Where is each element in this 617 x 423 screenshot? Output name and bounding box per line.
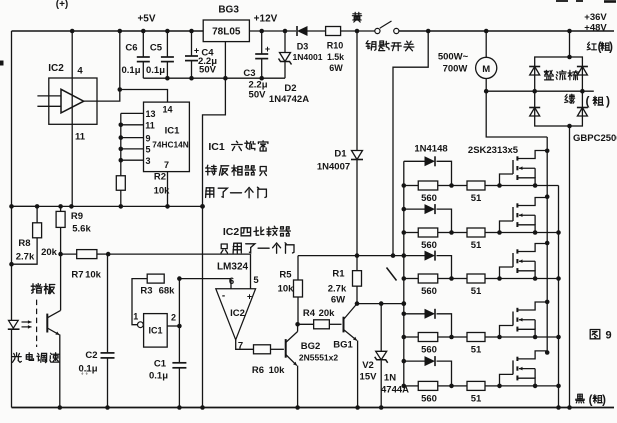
svg-text:R8: R8 (18, 238, 30, 249)
svg-text:10k: 10k (278, 284, 295, 295)
wire +36V/+48V rail after switch (399, 29, 614, 34)
diode 1N4148 row 4 (404, 309, 452, 337)
wire switch output branch (393, 31, 428, 256)
key switch (375, 21, 399, 34)
svg-text:500W~: 500W~ (438, 52, 469, 63)
svg-text:20k: 20k (319, 308, 336, 319)
label 2SK2313x5 (468, 145, 519, 156)
svg-text:68k: 68k (159, 286, 176, 297)
wire source row 1 to source bus (500, 185, 559, 187)
svg-text:IC2: IC2 (48, 63, 64, 74)
resistor R9 5.6k (56, 206, 91, 254)
svg-text:2N5551x2: 2N5551x2 (299, 353, 339, 363)
svg-text:0.1μ: 0.1μ (146, 65, 165, 76)
svg-text:+48V: +48V (584, 23, 607, 34)
svg-text:560: 560 (421, 345, 437, 356)
resistor R2 10k (116, 172, 170, 207)
light arrows (22, 320, 32, 329)
svg-text:+: + (265, 44, 270, 54)
label LM324 (217, 262, 249, 273)
diode 1N4148 row 2 (404, 204, 452, 232)
decor left edge mark (0, 61, 4, 66)
svg-text:): ) (609, 42, 613, 54)
svg-text:2SK2313x5: 2SK2313x5 (468, 145, 519, 156)
svg-text:BG3: BG3 (218, 5, 239, 16)
svg-text:C1: C1 (154, 359, 167, 370)
resistor R6 10k (252, 345, 285, 376)
wire pin6 from R3 node (179, 279, 231, 289)
wire +12V rail (78L05 output to D3) (249, 29, 296, 34)
node R5/R4/BG2 collector (295, 322, 300, 327)
svg-text:R3: R3 (140, 286, 152, 297)
label rectifier bridge (zhengliuqiao) (544, 70, 578, 80)
svg-text:51: 51 (471, 240, 482, 251)
schmitt gate IC1 box (133, 312, 176, 348)
MOSFET Q4 2SK2313 (500, 300, 550, 340)
diode 1N4148 row 1 (404, 156, 452, 185)
svg-text:5: 5 (145, 145, 150, 155)
capacitor C1 0.1u (149, 359, 186, 408)
motor M 500W~700W (438, 31, 497, 79)
wire comparator output (236, 340, 254, 350)
svg-text:14: 14 (162, 105, 172, 115)
svg-text:R4: R4 (303, 308, 316, 319)
bridge diode lower-left (529, 108, 540, 117)
wire source row 4 to source bus (500, 335, 561, 340)
MOSFET Q5 2SK2313 (500, 350, 550, 388)
svg-text:20k: 20k (41, 247, 58, 258)
label IC1 note line1 (six schmitt) (208, 141, 268, 153)
label +5V (137, 14, 155, 25)
svg-text:3: 3 (145, 156, 150, 166)
svg-text:1: 1 (133, 312, 138, 322)
svg-text:6W: 6W (329, 63, 343, 73)
svg-text:560: 560 (421, 193, 437, 204)
wire gate output pin2 (167, 324, 182, 329)
bridge diode upper-right (577, 67, 588, 76)
optocoupler IC2 box (37, 63, 97, 143)
svg-text:C2: C2 (85, 350, 97, 361)
capacitor C2 0.1u (78, 254, 114, 407)
svg-text:C5: C5 (150, 43, 163, 54)
label +36V +48V (584, 12, 607, 34)
wire drive node horizontal (355, 301, 406, 306)
svg-text:700W: 700W (443, 64, 468, 75)
svg-text:D2: D2 (284, 83, 296, 94)
capacitor C4 electrolytic (185, 31, 217, 78)
svg-text:↓↓: ↓↓ (80, 367, 89, 377)
svg-text:50V: 50V (249, 90, 267, 101)
label (+) top edge (56, 0, 69, 10)
wire IC1 unused input pins bus (119, 109, 156, 176)
svg-text:C3: C3 (243, 68, 255, 79)
svg-text:2: 2 (171, 313, 176, 323)
svg-text:560: 560 (421, 286, 437, 297)
svg-text:1N4001: 1N4001 (292, 52, 322, 62)
wire left vertical supply line (11, 31, 13, 408)
svg-text:M: M (482, 64, 490, 75)
svg-text:): ) (602, 395, 606, 407)
svg-text:50V: 50V (199, 65, 217, 76)
svg-text:51: 51 (471, 393, 482, 404)
resistor 51 row 3 (452, 274, 502, 297)
wire IC1 pin7 to ground rail (167, 172, 169, 207)
MOSFET Q3 2SK2313 (500, 241, 550, 281)
baffle dashed line (36, 300, 38, 347)
label thick (cu) (586, 94, 611, 108)
svg-text:(: ( (589, 395, 593, 407)
diode 1N4148 row 3 (404, 251, 452, 279)
svg-text:(: ( (586, 94, 590, 108)
wire IC2 output to +5V/pin14 (84, 31, 168, 102)
MOSFET Q1 2SK2313 (500, 149, 550, 188)
svg-text:-: - (222, 291, 225, 302)
diode D1 1N4007 (317, 31, 363, 256)
transistor BG1 2N5551 (333, 304, 357, 408)
resistor 560 row 2 (404, 228, 454, 251)
wire bottom ground rail (12, 405, 615, 410)
wire source bus (558, 186, 560, 408)
svg-text:5: 5 (253, 275, 259, 286)
svg-text:9: 9 (605, 330, 611, 342)
svg-text:C6: C6 (125, 43, 137, 54)
wire +5V top rail (left section) (12, 29, 204, 34)
wire ground path from caps (200, 78, 225, 407)
svg-text:+36V: +36V (584, 12, 607, 23)
wire rail R10 to key switch (340, 29, 375, 34)
label red thick (hong cu) (587, 42, 613, 54)
wire bridge bottom to ground rail (567, 124, 572, 408)
svg-text:2.7k: 2.7k (328, 284, 347, 295)
svg-text:+12V: +12V (254, 14, 278, 25)
MOSFET Q2 2SK2313 (500, 194, 550, 234)
svg-text:+: + (247, 292, 252, 302)
svg-text:11: 11 (145, 121, 155, 131)
svg-text:1N4742A: 1N4742A (269, 94, 309, 105)
wire bridge top connection (567, 31, 572, 59)
label key switch (yaoshi kaiguan) (366, 41, 414, 51)
svg-text:): ) (606, 94, 610, 108)
resistor 51 row 4 (452, 333, 502, 356)
svg-text:6W: 6W (331, 295, 345, 306)
svg-text:1N: 1N (384, 373, 396, 384)
wire rail D3 to R10 (308, 30, 326, 32)
wire IC2 supply line pin4 to pin11 (71, 31, 73, 206)
resistor R8 2.7k parallel branch (9, 206, 41, 266)
svg-text:4: 4 (77, 66, 83, 77)
svg-text:10k: 10k (85, 270, 102, 281)
resistor R1 2.7k 6W (328, 256, 362, 306)
svg-text:D3: D3 (297, 42, 309, 52)
wire source row 5 to source bus (500, 384, 561, 389)
resistor R3 68k (132, 274, 175, 325)
diode 1N4148 row 5 (404, 356, 452, 386)
wire gate drive bus (402, 161, 407, 388)
svg-text:15V: 15V (360, 372, 378, 383)
svg-text:78L05: 78L05 (212, 27, 241, 38)
label 1N4148 (414, 144, 447, 155)
bridge diode lower-right (577, 108, 588, 117)
svg-text:1N4148: 1N4148 (414, 144, 447, 155)
svg-text:IC2: IC2 (223, 226, 240, 238)
resistor R10 1.5k 6W (326, 27, 345, 74)
svg-text:IC1: IC1 (148, 326, 162, 336)
svg-text:0.1μ: 0.1μ (121, 65, 140, 76)
svg-text:R7: R7 (71, 270, 83, 281)
wire source row 2 to source bus (500, 230, 561, 235)
svg-text:D1: D1 (334, 149, 347, 160)
svg-text:560: 560 (421, 240, 437, 251)
svg-text:2.7k: 2.7k (16, 252, 35, 263)
label IC2 note line2 (221, 243, 294, 253)
svg-text:R1: R1 (332, 269, 345, 280)
svg-text:0.1μ: 0.1μ (149, 371, 168, 382)
label photoelectric speed control (guangdian tiaosu) (12, 353, 59, 363)
label IC1 note line3 (206, 187, 267, 198)
svg-text:IC2: IC2 (230, 308, 245, 319)
rectifier bridge GBPC2506 outline (535, 57, 583, 126)
svg-text:BG2: BG2 (301, 341, 321, 352)
svg-text:R9: R9 (71, 211, 83, 222)
regulator BG3 78L05 (203, 5, 249, 81)
svg-text:560: 560 (421, 393, 437, 404)
svg-text:5.6k: 5.6k (72, 224, 91, 235)
diode D3 1N4001 (292, 26, 322, 62)
zener diode D2 1N4742A (269, 31, 309, 105)
label IC2 note line1 (quad comparator) (223, 226, 291, 238)
svg-text:V2: V2 (362, 360, 374, 371)
op-amp IC2 (LM324 section) (216, 275, 260, 352)
label 20k (41, 247, 58, 258)
resistor 560 row 3 (404, 274, 454, 297)
svg-text:BG1: BG1 (333, 340, 353, 351)
resistor 560 row 1 (404, 181, 454, 204)
resistor 560 row 4 (404, 333, 454, 356)
svg-text:(+): (+) (56, 0, 69, 10)
decor stray slash mark (387, 268, 397, 281)
svg-text:LM324: LM324 (217, 262, 249, 273)
phototransistor (47, 254, 60, 407)
wire drain bus (546, 137, 548, 353)
wire R7 node to comparator pin5 (108, 254, 250, 289)
wire motor to drain bus (484, 79, 547, 138)
resistor 51 row 1 (452, 181, 502, 204)
node R9/R7/photo-collector (58, 252, 63, 257)
label +12V (254, 14, 278, 25)
label black thick (hei cu) (576, 394, 606, 406)
svg-text:13: 13 (145, 109, 155, 119)
photo interrupter LED (8, 320, 20, 329)
svg-text:IC1: IC1 (165, 126, 181, 137)
decor top edge marks (556, 0, 616, 3)
wire R3 node vertical (177, 276, 182, 362)
wire mid ground rail (9, 204, 205, 209)
label IC1 note line2 (206, 165, 267, 175)
svg-text:9: 9 (145, 134, 150, 144)
bridge diode upper-left (529, 67, 540, 76)
svg-text:51: 51 (471, 286, 482, 297)
resistor R7 10k (61, 250, 111, 281)
svg-text:+: + (194, 46, 199, 56)
svg-text:R10: R10 (327, 41, 344, 51)
resistor 51 row 2 (452, 228, 502, 251)
capacitor C6 (121, 31, 149, 78)
svg-text:GBPC2506: GBPC2506 (573, 133, 617, 144)
IC IC1 74HC14N box (144, 102, 190, 172)
svg-text:+5V: +5V (137, 14, 155, 25)
wire source row 3 to source bus (500, 276, 561, 281)
label baffle (dangban) (31, 284, 55, 294)
svg-text:11: 11 (75, 132, 86, 143)
capacitor C3 electrolytic (243, 31, 270, 101)
resistor 51 row 5 (452, 381, 502, 404)
resistor 560 row 5 (404, 381, 454, 404)
wire bridge AC mid line (486, 89, 594, 94)
resistor R4 20k (298, 308, 342, 329)
wire capacitor bottom rail (143, 76, 285, 81)
label GBPC2506 (573, 133, 617, 144)
svg-text:74HC14N: 74HC14N (152, 140, 188, 150)
zener V2 1N4744A 15V (360, 304, 410, 408)
svg-text:7: 7 (164, 160, 169, 170)
transistor BG2 2N5551 (286, 324, 339, 407)
svg-text:R6: R6 (252, 365, 264, 376)
svg-text:R5: R5 (279, 270, 292, 281)
wire gate drive feed (298, 253, 406, 258)
svg-text:IC1: IC1 (208, 141, 225, 153)
label figure 9 (tu 9) (590, 330, 611, 342)
svg-text:1.5k: 1.5k (327, 52, 344, 62)
node yellow (huang) (352, 12, 361, 22)
svg-text:6: 6 (229, 276, 234, 287)
svg-text:51: 51 (471, 193, 482, 204)
svg-text:51: 51 (471, 345, 482, 356)
svg-text:10k: 10k (269, 365, 286, 376)
label green (lv) (565, 94, 575, 103)
capacitor C5 (146, 31, 174, 78)
svg-text:1N4007: 1N4007 (317, 162, 350, 173)
svg-text:R2: R2 (154, 172, 166, 183)
resistor R5 10k (278, 256, 303, 325)
